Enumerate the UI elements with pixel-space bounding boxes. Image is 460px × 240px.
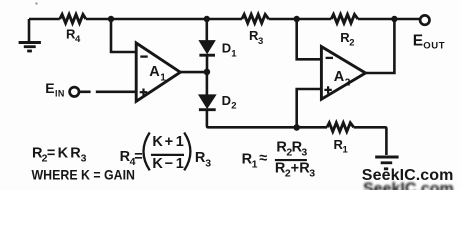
wire bottom rail from D2 to R1 [207, 126, 327, 127]
svg-text:2: 2 [345, 77, 351, 88]
wire top rail from R4 to R3 [86, 18, 242, 21]
svg-text:E: E [413, 33, 423, 50]
svg-text:3: 3 [301, 146, 307, 158]
svg-text:3: 3 [258, 36, 263, 47]
svg-text:4: 4 [75, 34, 81, 45]
wire from EIN to A1 non-inverting input [79, 91, 136, 94]
wire top rail from R2 to output terminal [358, 18, 420, 21]
watermark SeekIC.com [362, 167, 454, 198]
svg-text:2: 2 [349, 38, 354, 49]
wire from top rail down to A1 inverting input [111, 19, 137, 52]
svg-text:D: D [222, 41, 231, 56]
svg-text:1: 1 [160, 73, 166, 84]
svg-text:SeekIC.com: SeekIC.com [363, 180, 454, 190]
svg-text:3: 3 [81, 153, 87, 165]
ground GND2 bottom-right [375, 157, 398, 169]
svg-text:2: 2 [231, 101, 236, 112]
ground GND1 top-left [19, 19, 41, 51]
svg-text:A: A [149, 64, 160, 80]
formula R4 = ((K+1)/(K-1)) R3 [120, 133, 212, 173]
wire top rail from R3 to R2 [269, 18, 332, 21]
terminal EIN open circle and label [45, 80, 79, 99]
svg-text:OUT: OUT [423, 41, 445, 52]
svg-text:IN: IN [55, 89, 65, 99]
wire from bottom rail up to A2 non-inverting input [297, 89, 322, 127]
diode D2 [199, 72, 237, 126]
terminal EOUT open circle [413, 15, 445, 51]
wire A2 output up to top rail [366, 19, 395, 73]
svg-text:WHERE K = GAIN: WHERE K = GAIN [32, 167, 136, 182]
svg-text:3: 3 [309, 168, 315, 180]
resistor R4 [60, 14, 86, 45]
svg-text:K: K [58, 146, 69, 162]
op-amp A2 [321, 47, 365, 100]
scan speck [35, 2, 37, 4]
svg-text:+: + [291, 161, 299, 177]
resistor R1 [327, 123, 354, 156]
node junction at A2 inverting branch [294, 16, 300, 22]
svg-text:K: K [152, 134, 163, 150]
svg-text:E: E [45, 80, 54, 96]
node junction at A2 output [391, 16, 397, 22]
svg-text:1: 1 [231, 48, 237, 59]
wire bottom rail from R1 to ground [354, 127, 387, 155]
node junction between D1 and D2 [204, 69, 211, 76]
svg-text:−: − [165, 156, 173, 172]
node junction at D1 branch [204, 16, 210, 22]
svg-text:1: 1 [343, 145, 349, 156]
wire from top rail down to A2 inverting input [297, 19, 322, 59]
svg-text:=: = [47, 146, 55, 162]
svg-text:1: 1 [176, 134, 184, 150]
svg-text:1: 1 [252, 159, 258, 171]
resistor R3 [242, 14, 269, 47]
formula R2 = K R3 [32, 146, 87, 165]
node junction at A1 inverting branch [108, 16, 114, 22]
svg-text:+: + [165, 134, 173, 150]
svg-text:1: 1 [176, 156, 184, 172]
wire A1 output to diode node [180, 71, 207, 74]
svg-text:K: K [152, 156, 163, 172]
svg-text:3: 3 [205, 157, 211, 169]
wire top rail from ground to R4 [29, 18, 60, 21]
formula R1 = R2R3/(R2+R3) [242, 139, 316, 179]
svg-text:D: D [222, 93, 231, 108]
svg-text:A: A [334, 69, 345, 85]
op-amp A1 [136, 43, 180, 101]
node junction at A2 non-inverting branch [293, 124, 300, 131]
svg-text:≈: ≈ [259, 150, 267, 166]
svg-text:=: = [134, 149, 142, 165]
diode D1 [199, 19, 237, 70]
resistor R2 [331, 14, 358, 48]
